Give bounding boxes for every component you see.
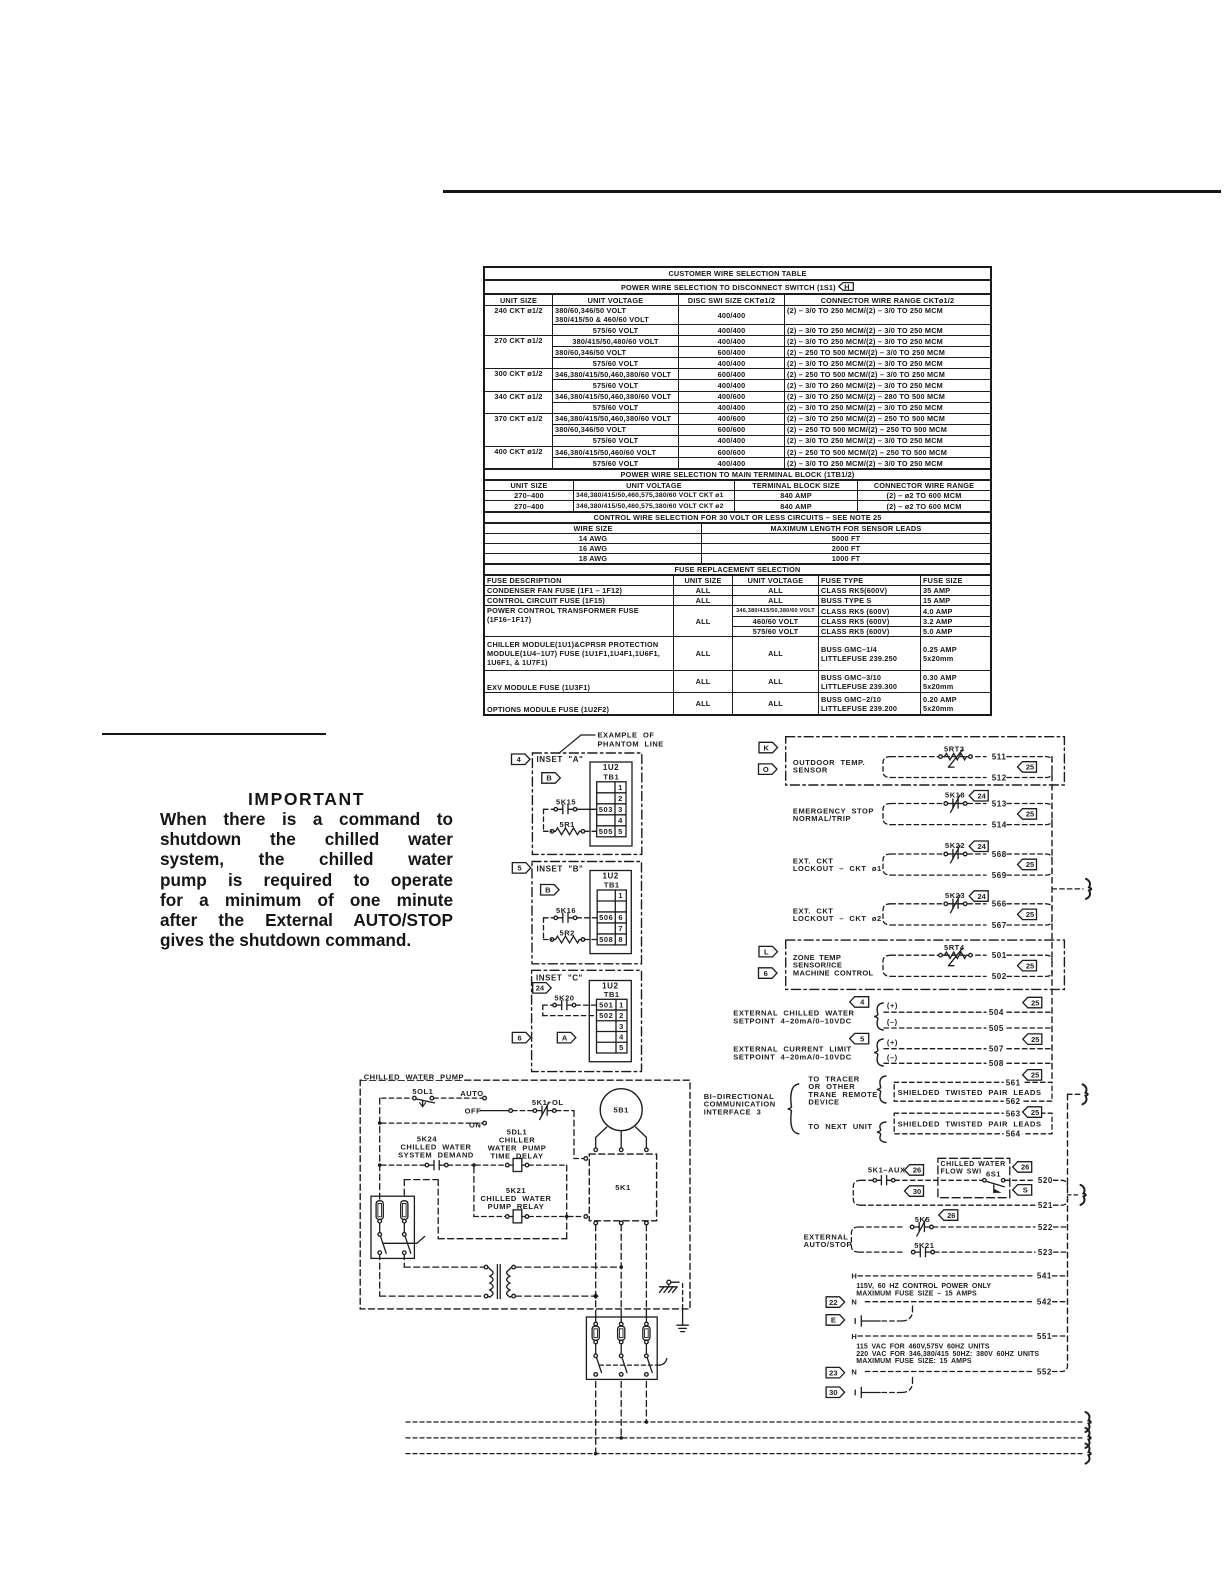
tag 25 (zone)	[1018, 960, 1037, 971]
svg-text:N: N	[851, 1367, 857, 1376]
svg-text:25: 25	[1031, 1108, 1039, 1117]
contact 5K24 chilled water system demand	[378, 1135, 474, 1170]
ground stub E	[855, 1304, 912, 1326]
label: external current limit setpoint	[733, 1045, 851, 1062]
svg-text:8: 8	[618, 935, 623, 944]
wire 504 (+)	[884, 1001, 1051, 1017]
label: external chilled water setpoint	[733, 1009, 854, 1026]
svg-text:563: 563	[1006, 1109, 1021, 1118]
svg-text:503: 503	[599, 805, 613, 814]
wire 508 (-)	[884, 1053, 1051, 1068]
svg-text:25: 25	[1026, 961, 1034, 970]
svg-text:TB1: TB1	[604, 990, 620, 999]
tag 24 (5K18)	[969, 791, 988, 802]
tag 25 (emergency stop)	[1018, 809, 1037, 820]
continuation hook (middle)	[1083, 1084, 1088, 1104]
tag 25 (next unit leads)	[1023, 1107, 1042, 1118]
svg-text:30: 30	[829, 1388, 837, 1397]
svg-text:ON: ON	[469, 1121, 481, 1130]
brace (to tracer)	[877, 1076, 886, 1103]
resistor 5R1	[544, 820, 597, 835]
svg-text:552: 552	[1037, 1367, 1052, 1376]
tag 24 (5K22)	[969, 841, 988, 852]
left short rule	[102, 733, 326, 735]
continuation hook (flow)	[1081, 1185, 1086, 1205]
svg-text:INSET "C": INSET "C"	[536, 974, 583, 983]
svg-text:SETPOINT 4–20mA/0–10VDC: SETPOINT 4–20mA/0–10VDC	[733, 1052, 851, 1061]
svg-text:541: 541	[1037, 1272, 1052, 1281]
contact 5K18	[943, 791, 967, 813]
label: to tracer	[808, 1075, 877, 1107]
transformer 5T1	[484, 1265, 515, 1299]
inset B boundary	[532, 862, 642, 964]
svg-text:24: 24	[536, 984, 545, 993]
svg-text:6S1: 6S1	[986, 1170, 1001, 1179]
wires 513/514 loop	[883, 799, 1052, 829]
svg-text:561: 561	[1006, 1078, 1021, 1087]
customer wire selection table	[483, 266, 992, 716]
svg-text:5RT3: 5RT3	[944, 745, 965, 754]
svg-text:508: 508	[989, 1059, 1004, 1068]
svg-text:26: 26	[913, 1166, 921, 1175]
svg-text:5K16: 5K16	[556, 906, 576, 915]
tag 4	[512, 754, 531, 765]
svg-text:22: 22	[829, 1298, 837, 1307]
svg-text:SETPOINT 4–20mA/0–10VDC: SETPOINT 4–20mA/0–10VDC	[733, 1016, 851, 1025]
svg-text:505: 505	[599, 827, 613, 836]
tag 5	[512, 863, 531, 874]
svg-text:511: 511	[992, 752, 1007, 761]
svg-text:506: 506	[599, 913, 613, 922]
module 1U2 / terminal block TB1 (inset C)	[589, 981, 631, 1062]
label: ext ckt lockout ckt1	[793, 857, 882, 874]
wire: relay loop verticals	[474, 1165, 567, 1216]
svg-text:CHILLED WATER: CHILLED WATER	[941, 1161, 1006, 1168]
svg-text:5: 5	[860, 1034, 864, 1043]
tag 25 (lockout 1)	[1018, 859, 1037, 870]
wire into flow switch box	[895, 1179, 982, 1181]
wire: inset B left bracket	[543, 918, 545, 940]
wires 511/512 loop	[883, 752, 1052, 782]
continuation hook L3	[1086, 1444, 1091, 1464]
continuation hook L1	[1086, 1412, 1091, 1432]
contact 5K15	[544, 797, 597, 814]
tag O	[759, 764, 778, 775]
tag 25 (current limit)	[1023, 1034, 1042, 1045]
position OFF / contact 5K1-OL	[465, 1098, 574, 1119]
svg-text:522: 522	[1038, 1223, 1053, 1232]
svg-text:26: 26	[947, 1211, 955, 1220]
note: 115V 60Hz control power	[856, 1283, 991, 1298]
inset B title	[537, 865, 584, 874]
contact 5K5	[859, 1215, 933, 1236]
svg-text:505: 505	[989, 1024, 1004, 1033]
svg-text:4: 4	[619, 1032, 624, 1041]
svg-text:567: 567	[992, 921, 1007, 930]
contactor 5K1	[589, 1148, 656, 1225]
svg-text:568: 568	[992, 850, 1007, 859]
svg-text:5K15: 5K15	[556, 797, 576, 806]
svg-text:220 VAC FOR 346,380/415 50HZ:: 220 VAC FOR 346,380/415 50HZ: 380V 60HZ …	[856, 1351, 1039, 1358]
svg-text:AUTO: AUTO	[460, 1089, 483, 1098]
svg-text:1U2: 1U2	[602, 872, 618, 881]
ground stub 30	[855, 1375, 912, 1398]
svg-text:SYSTEM DEMAND: SYSTEM DEMAND	[398, 1151, 474, 1160]
svg-text:S: S	[1023, 1186, 1028, 1195]
svg-text:5K20: 5K20	[554, 993, 574, 1002]
svg-text:25: 25	[1031, 998, 1039, 1007]
svg-text:INSET "A": INSET "A"	[537, 755, 584, 764]
svg-text:MAXIMUM FUSE SIZE: 15 AMPS: MAXIMUM FUSE SIZE: 15 AMPS	[856, 1358, 972, 1365]
zone temp sensor boundary box	[786, 940, 1065, 989]
power bus line L1	[406, 1420, 1083, 1424]
tag 23	[826, 1367, 845, 1378]
svg-text:O: O	[763, 765, 769, 774]
svg-text:508: 508	[599, 935, 613, 944]
tag E	[826, 1315, 845, 1326]
label: emergency stop	[793, 807, 874, 824]
svg-text:DEVICE: DEVICE	[808, 1098, 839, 1107]
svg-text:504: 504	[989, 1008, 1004, 1017]
svg-text:25: 25	[1026, 910, 1034, 919]
svg-text:2: 2	[618, 794, 623, 803]
wire 541 (H)	[851, 1272, 1066, 1281]
contact 5K22	[943, 841, 967, 863]
inset C title	[536, 974, 583, 983]
svg-text:115V, 60 HZ CONTROL POWER ONLY: 115V, 60 HZ CONTROL POWER ONLY	[856, 1283, 991, 1290]
brace (to next unit)	[877, 1122, 886, 1142]
brace (current limit setpoint)	[874, 1039, 883, 1066]
svg-text:6: 6	[618, 913, 623, 922]
svg-text:LOCKOUT – CKT ø1: LOCKOUT – CKT ø1	[793, 864, 882, 873]
svg-text:521: 521	[1038, 1201, 1053, 1210]
tag 30 (bottom)	[826, 1387, 845, 1398]
wire 523	[935, 1248, 1067, 1257]
inset A title	[537, 755, 584, 764]
shielded twisted pair leads box 1 (561/562)	[894, 1078, 1052, 1106]
IMPORTANT heading	[160, 789, 453, 810]
svg-text:(–): (–)	[887, 1053, 898, 1062]
svg-text:AUTO/STOP: AUTO/STOP	[804, 1240, 852, 1249]
svg-text:25: 25	[1026, 810, 1034, 819]
resistor 5R2	[544, 929, 598, 943]
label: ext ckt lockout ckt2	[793, 906, 882, 923]
thermistor 5RT3	[939, 745, 973, 768]
tag 25 (lockout 2)	[1018, 909, 1037, 920]
contact 5K1-AUX	[868, 1165, 906, 1185]
svg-text:551: 551	[1037, 1332, 1052, 1341]
label: bi-directional communication interface 3	[704, 1092, 776, 1116]
tag 30 (5K1-AUX)	[905, 1186, 924, 1197]
svg-text:5K1: 5K1	[615, 1183, 630, 1192]
svg-text:5K5: 5K5	[915, 1215, 930, 1224]
tag 25 (outdoor)	[1018, 762, 1037, 773]
svg-text:6: 6	[764, 969, 768, 978]
svg-text:25: 25	[1026, 860, 1034, 869]
continuation hook (upper)	[1086, 879, 1091, 899]
svg-text:(+): (+)	[887, 1001, 898, 1010]
inset C boundary	[532, 970, 642, 1071]
position AUTO	[434, 1089, 487, 1100]
svg-text:EXAMPLE OF: EXAMPLE OF	[598, 730, 655, 739]
selector switch 5OL1	[382, 1087, 435, 1107]
wire 542 (N)	[851, 1298, 1066, 1307]
module 1U2 / terminal block TB1 (inset A)	[590, 762, 632, 846]
tag 6	[512, 1032, 531, 1043]
svg-text:501: 501	[992, 951, 1007, 960]
svg-text:1U2: 1U2	[603, 763, 619, 772]
wires: motor phase drops	[596, 1225, 647, 1317]
tag 25 (tracer leads)	[1023, 1070, 1042, 1081]
svg-text:(–): (–)	[887, 1018, 898, 1027]
svg-text:MAXIMUM FUSE SIZE – 15 AMPS: MAXIMUM FUSE SIZE – 15 AMPS	[856, 1291, 977, 1298]
svg-text:L: L	[764, 947, 769, 956]
svg-text:SENSOR: SENSOR	[793, 766, 828, 775]
svg-text:PHANTOM LINE: PHANTOM LINE	[598, 739, 664, 748]
tag S (flow switch)	[1013, 1185, 1032, 1196]
top rule	[443, 190, 1221, 193]
tag 22	[826, 1297, 845, 1308]
svg-text:1: 1	[619, 1000, 624, 1009]
contact 5K16	[544, 906, 598, 923]
svg-text:H: H	[851, 1272, 857, 1281]
brace (comm interface)	[788, 1084, 799, 1134]
wire: inset C loop to 502	[543, 1005, 597, 1016]
relay 5K21 chilled water pump relay	[474, 1186, 588, 1223]
ground (motor frame)	[659, 1280, 688, 1331]
svg-text:566: 566	[992, 900, 1007, 909]
label: external auto/stop	[804, 1233, 852, 1250]
inset A boundary (phantom line box)	[532, 753, 641, 854]
svg-text:3: 3	[619, 1022, 624, 1031]
wire: inset A left bracket	[543, 809, 545, 831]
wires 566/567 loop	[883, 900, 1052, 930]
svg-text:7: 7	[618, 924, 623, 933]
svg-text:26: 26	[1021, 1163, 1029, 1172]
wires 568/569 loop	[883, 850, 1052, 880]
tag A	[557, 1032, 576, 1043]
svg-text:5OL1: 5OL1	[412, 1087, 433, 1096]
wire: 5K1 coil feed	[574, 1111, 588, 1161]
svg-text:520: 520	[1038, 1176, 1053, 1185]
svg-text:5K21: 5K21	[914, 1241, 934, 1250]
svg-text:562: 562	[1006, 1097, 1021, 1106]
tag L	[759, 946, 778, 957]
wires: service drops to bus	[596, 1382, 647, 1454]
svg-text:25: 25	[1031, 1035, 1039, 1044]
svg-text:25: 25	[1026, 763, 1034, 772]
svg-text:507: 507	[989, 1045, 1004, 1054]
contact 5K20	[543, 993, 597, 1009]
wires 522/523 left bracket	[851, 1227, 859, 1252]
wire: branch to continuation hook (flow)	[1068, 1194, 1079, 1196]
svg-text:SHIELDED TWISTED PAIR LEADS: SHIELDED TWISTED PAIR LEADS	[898, 1088, 1042, 1097]
svg-text:E: E	[831, 1316, 836, 1325]
shielded twisted pair leads box 2 (563/564)	[894, 1109, 1052, 1138]
tag 5 (setpoint)	[850, 1033, 869, 1044]
svg-text:B: B	[545, 885, 551, 894]
power bus line L3	[406, 1452, 1083, 1456]
svg-text:513: 513	[992, 799, 1007, 808]
svg-text:NORMAL/TRIP: NORMAL/TRIP	[793, 814, 851, 823]
wires: transformer secondary	[515, 1267, 619, 1296]
svg-text:SHIELDED TWISTED PAIR LEADS: SHIELDED TWISTED PAIR LEADS	[898, 1120, 1042, 1129]
tag 24 (5K23)	[969, 891, 988, 902]
tag B (inset A)	[542, 773, 561, 784]
svg-text:5: 5	[517, 864, 521, 873]
svg-text:TB1: TB1	[604, 881, 620, 890]
svg-text:H: H	[851, 1332, 857, 1341]
wire: left control rail	[379, 1098, 381, 1200]
svg-text:5K23: 5K23	[945, 891, 965, 900]
svg-text:5: 5	[618, 827, 623, 836]
label: to next unit	[808, 1122, 872, 1131]
wire 522	[933, 1223, 1066, 1232]
phantom line example callout	[559, 730, 664, 753]
svg-text:MACHINE CONTROL: MACHINE CONTROL	[793, 968, 874, 977]
svg-text:30: 30	[913, 1187, 921, 1196]
svg-text:5B1: 5B1	[613, 1106, 628, 1115]
svg-text:N: N	[851, 1298, 857, 1307]
tag 6 (zone)	[759, 968, 778, 979]
svg-text:501: 501	[599, 1000, 613, 1009]
wire 505 (-)	[884, 1018, 1051, 1033]
svg-text:CHILLED WATER PUMP: CHILLED WATER PUMP	[364, 1072, 464, 1081]
svg-text:523: 523	[1038, 1248, 1053, 1257]
svg-text:23: 23	[829, 1368, 837, 1377]
IMPORTANT body text	[160, 809, 453, 950]
svg-text:FLOW SWI: FLOW SWI	[941, 1169, 982, 1176]
svg-text:1: 1	[618, 783, 623, 792]
tag 4 (setpoint)	[850, 997, 869, 1008]
tag K	[759, 742, 778, 753]
svg-text:B: B	[546, 774, 552, 783]
contact 5K21 (auto/stop)	[859, 1241, 935, 1257]
wire: fuse feed loop	[404, 1180, 566, 1239]
svg-text:5K22: 5K22	[945, 841, 965, 850]
module 1U2 / terminal block TB1 (inset B)	[590, 871, 631, 954]
svg-text:115 VAC FOR 460V,575V 60HZ UNI: 115 VAC FOR 460V,575V 60HZ UNITS	[856, 1344, 990, 1351]
svg-text:24: 24	[978, 842, 987, 851]
svg-text:25: 25	[1031, 1071, 1039, 1080]
svg-text:5K18: 5K18	[945, 791, 965, 800]
motor 5B1	[596, 1089, 647, 1148]
svg-text:514: 514	[992, 820, 1007, 829]
svg-text:569: 569	[992, 871, 1007, 880]
right bus: vertical phantom line (lower)	[1067, 1094, 1069, 1365]
continuation hook L2	[1086, 1428, 1091, 1448]
wires 520/521 left bracket	[853, 1180, 873, 1205]
svg-text:2: 2	[619, 1011, 624, 1020]
thermistor 5RT4	[939, 943, 973, 966]
position ON	[378, 1121, 487, 1130]
time delay relay 5DL1	[472, 1128, 567, 1172]
svg-text:INSET "B": INSET "B"	[537, 865, 584, 874]
wire 507 (+)	[884, 1038, 1051, 1054]
label: outdoor temp sensor	[793, 758, 865, 775]
svg-text:5RT4: 5RT4	[944, 943, 965, 952]
svg-text:502: 502	[992, 972, 1007, 981]
svg-text:5R1: 5R1	[560, 820, 575, 829]
svg-text:INTERFACE 3: INTERFACE 3	[704, 1107, 762, 1116]
svg-text:A: A	[562, 1033, 568, 1042]
wire: branch to continuation hook (upper)	[1052, 888, 1083, 890]
svg-text:(+): (+)	[887, 1038, 898, 1047]
svg-text:LOCKOUT – CKT ø2: LOCKOUT – CKT ø2	[793, 914, 882, 923]
fused disconnect (2-pole)	[371, 1196, 425, 1258]
svg-text:512: 512	[992, 773, 1007, 782]
svg-text:564: 564	[1006, 1130, 1021, 1139]
tag 26 (5K1-AUX)	[905, 1165, 924, 1176]
chilled water pump boundary box	[360, 1071, 690, 1309]
svg-text:24: 24	[978, 791, 987, 800]
tag 24 (inset C)	[533, 983, 552, 994]
wires: transformer primary	[380, 1254, 485, 1297]
power bus line L2	[406, 1436, 1083, 1440]
flow switch 6S1	[983, 1170, 1005, 1193]
tag B (inset B)	[541, 885, 560, 896]
wire 521	[861, 1199, 1068, 1210]
svg-text:6: 6	[517, 1033, 521, 1042]
outdoor temp sensor boundary box	[786, 737, 1065, 785]
wire 520	[1005, 1176, 1068, 1186]
svg-text:5K1–AUX: 5K1–AUX	[868, 1165, 906, 1174]
svg-text:4: 4	[618, 816, 623, 825]
wire: branch to continuation hook (middle)	[1068, 1093, 1081, 1095]
svg-text:OFF: OFF	[465, 1106, 482, 1115]
right bus: vertical phantom line (upper)	[1051, 757, 1053, 1083]
svg-text:542: 542	[1037, 1298, 1052, 1307]
brace (chilled water setpoint)	[874, 1003, 883, 1030]
chilled water flow switch box	[938, 1158, 1010, 1197]
svg-text:3: 3	[618, 805, 623, 814]
svg-text:1: 1	[618, 891, 623, 900]
tag 25 (chw setpoint)	[1023, 997, 1042, 1008]
svg-text:TO NEXT UNIT: TO NEXT UNIT	[808, 1122, 872, 1131]
svg-text:502: 502	[599, 1011, 613, 1020]
contact 5K23	[943, 891, 967, 913]
wire 552 (N)	[851, 1366, 1067, 1377]
svg-text:TB1: TB1	[603, 772, 619, 781]
note: 115/220 VAC units	[856, 1344, 1039, 1366]
svg-text:24: 24	[978, 892, 987, 901]
svg-text:K: K	[764, 743, 770, 752]
label: zone temp sensor	[793, 953, 874, 977]
tag 26 (5K5)	[939, 1210, 958, 1221]
wires 501/502 loop	[883, 951, 1052, 981]
svg-text:5: 5	[619, 1043, 624, 1052]
fused disconnect (3-pole)	[586, 1317, 666, 1379]
tag 26 (flow switch)	[1013, 1162, 1032, 1173]
junction: transformer taps	[593, 1265, 623, 1299]
wire 551 (H)	[851, 1332, 1066, 1341]
